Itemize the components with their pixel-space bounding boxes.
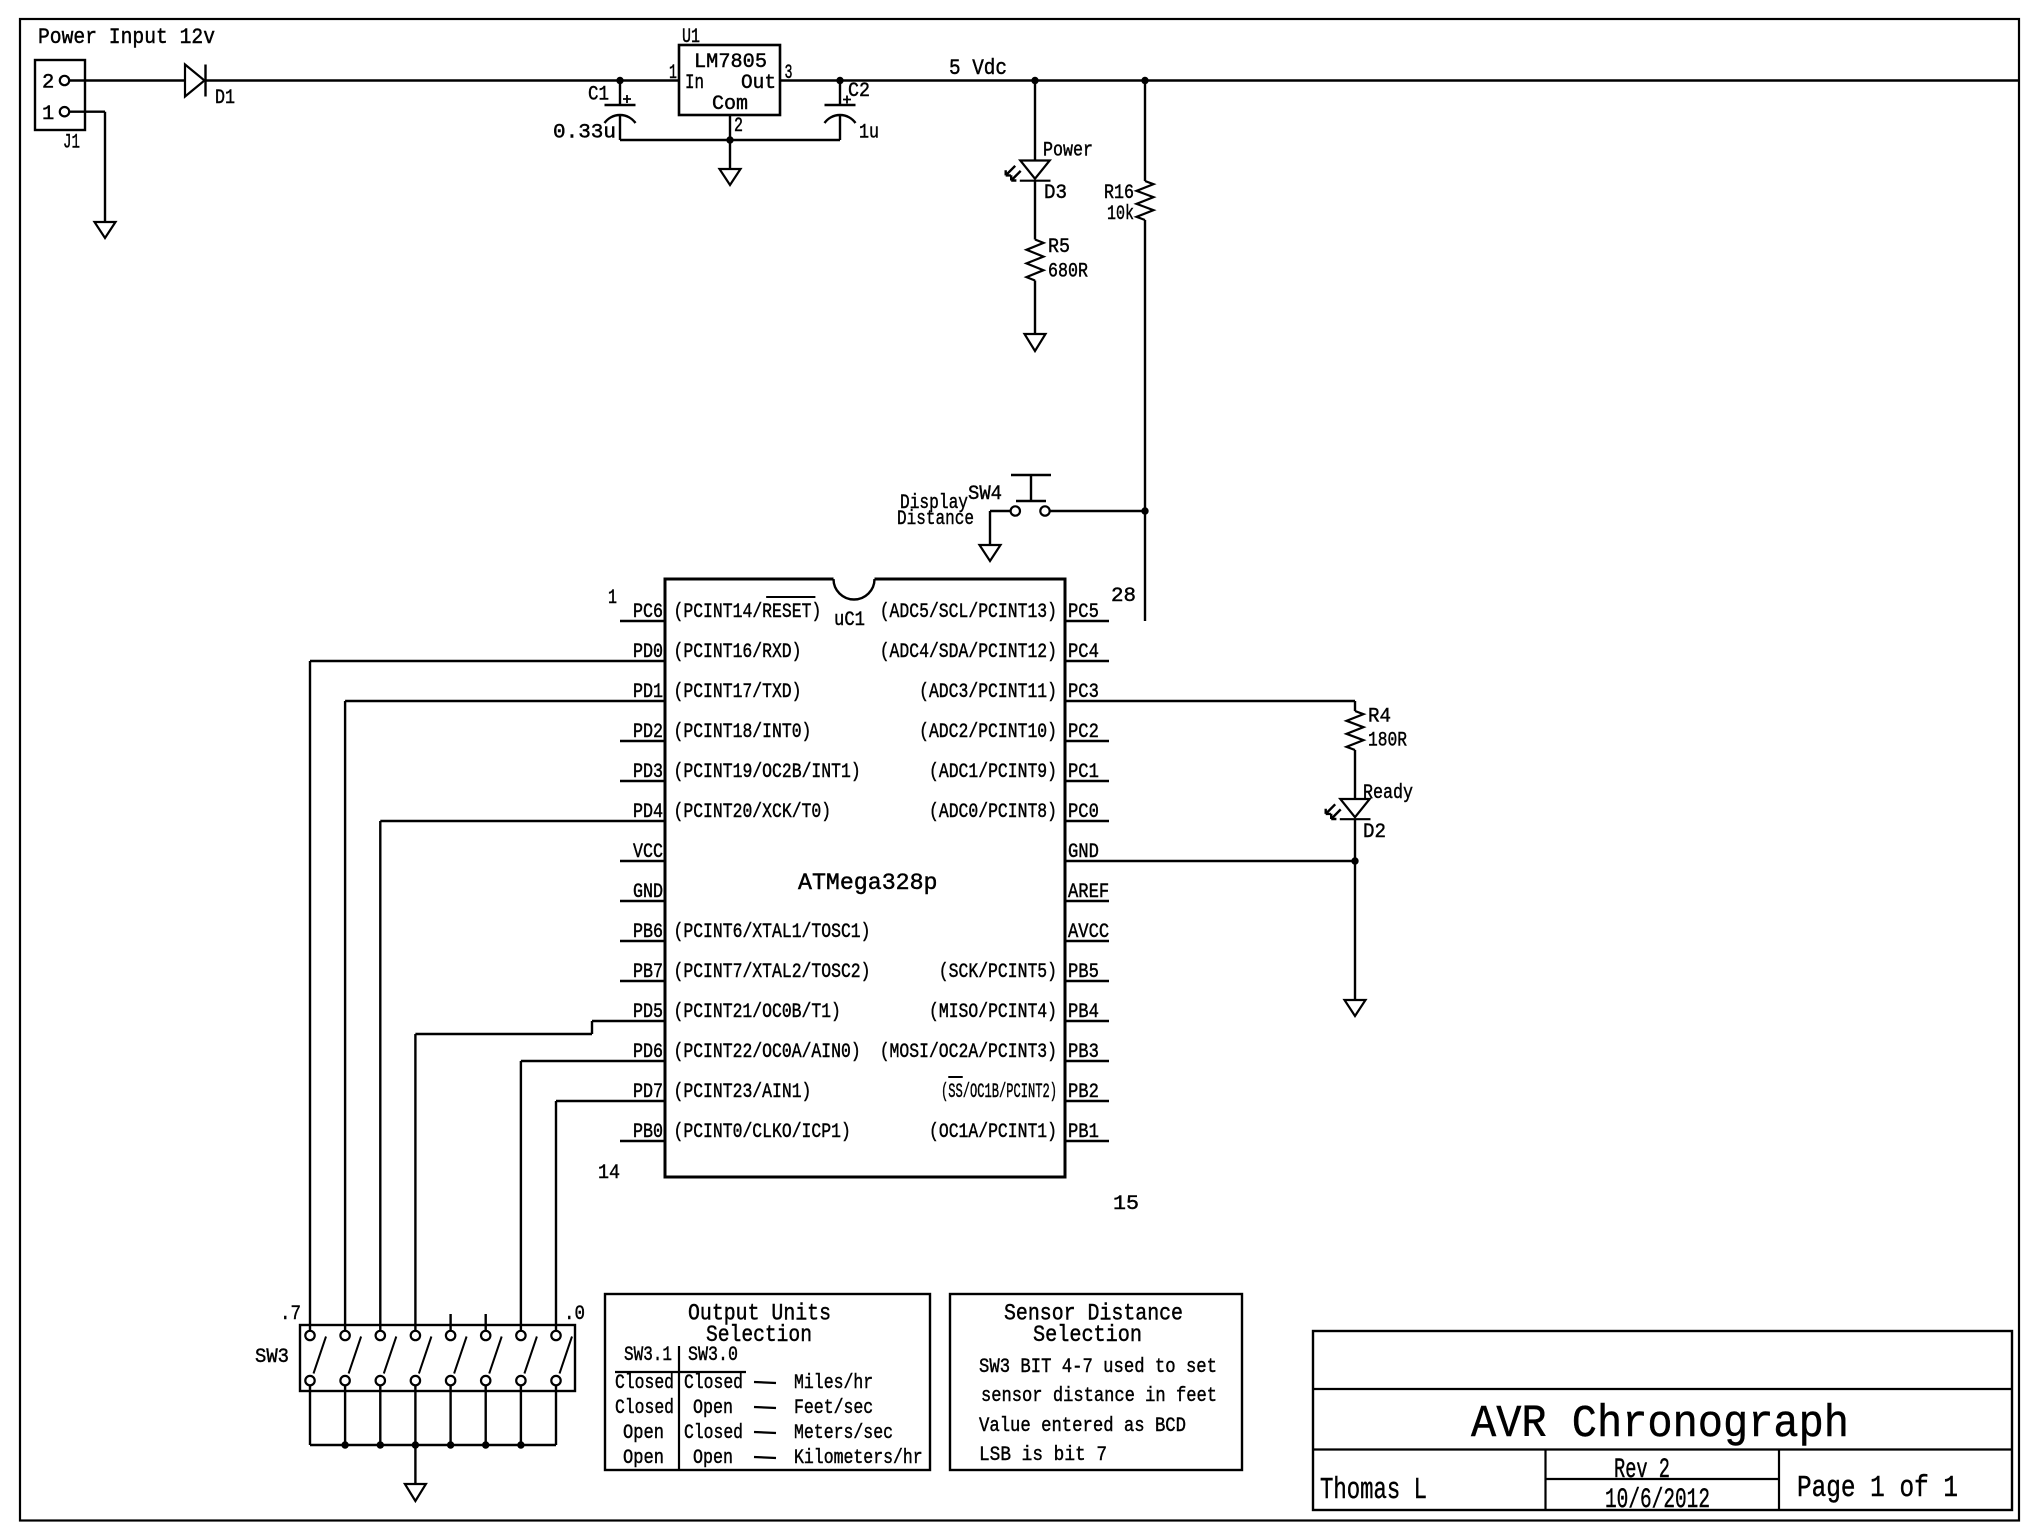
switch SW4 pushbutton [1011, 475, 1051, 516]
switch SW3 position 5 [376, 1331, 397, 1386]
switch SW3 position 0 [551, 1331, 572, 1386]
wire SW3 bottom 4 [414, 1385, 416, 1445]
svg-text:PB4: PB4 [1068, 1001, 1099, 1024]
svg-text:PD6: PD6 [633, 1041, 663, 1064]
svg-text:15: 15 [1113, 1193, 1139, 1216]
pin PC2 stub [1065, 740, 1109, 742]
pin PD7 stub [620, 1100, 665, 1102]
svg-text:PC0: PC0 [1068, 801, 1099, 824]
wire PD1 to SW3.6 [345, 701, 620, 1331]
table row Feet/sec [615, 1397, 873, 1420]
svg-text:PC1: PC1 [1068, 761, 1099, 784]
svg-text:Open: Open [623, 1422, 664, 1445]
svg-text:PB1: PB1 [1068, 1121, 1099, 1144]
wire R5 to ground [1034, 281, 1036, 335]
svg-text:PC6: PC6 [633, 601, 663, 624]
svg-text:Closed: Closed [684, 1372, 743, 1395]
wire D3 to R5 [1034, 180, 1036, 240]
svg-text:Closed: Closed [684, 1422, 743, 1445]
pin PB4 stub [1065, 1020, 1109, 1022]
svg-text:VCC: VCC [633, 841, 663, 864]
svg-text:(PCINT20/XCK/T0): (PCINT20/XCK/T0) [674, 801, 832, 824]
svg-text:(PCINT18/INT0): (PCINT18/INT0) [674, 721, 812, 744]
microcontroller uC1 ATMega328p body [665, 579, 1065, 1177]
wire SW3 bottom 2 [485, 1385, 487, 1445]
node C1 junction [616, 77, 623, 84]
connector J1 [35, 60, 85, 130]
svg-text:R16: R16 [1104, 182, 1134, 205]
svg-text:SW3: SW3 [255, 1346, 289, 1369]
wire SW3 bottom 0 [555, 1385, 557, 1445]
switch SW3 position 1 [516, 1331, 537, 1386]
wire SW3 bottom 1 [520, 1385, 522, 1445]
wire SW3 bottom 6 [344, 1385, 346, 1445]
svg-text:Kilometers/hr: Kilometers/hr [794, 1447, 923, 1470]
wire PD4 to SW3.5 [380, 821, 620, 1331]
svg-text:(MOSI/OC2A/PCINT3): (MOSI/OC2A/PCINT3) [880, 1041, 1057, 1064]
svg-text:(PCINT6/XTAL1/TOSC1): (PCINT6/XTAL1/TOSC1) [674, 921, 871, 944]
pin PC6 stub [620, 620, 665, 622]
svg-text:PD7: PD7 [633, 1081, 663, 1104]
node GND junction [1351, 857, 1358, 864]
svg-text:10k: 10k [1107, 203, 1134, 226]
pin AVCC stub [1065, 940, 1109, 942]
svg-text:1: 1 [608, 587, 617, 610]
ground J1 [95, 222, 116, 238]
svg-text:(SS/OC1B/PCINT2): (SS/OC1B/PCINT2) [941, 1081, 1057, 1104]
svg-text:Distance: Distance [897, 508, 974, 531]
svg-text:R5: R5 [1048, 236, 1070, 259]
pin PD3 stub [620, 780, 665, 782]
pin PD5 stub [620, 1020, 665, 1022]
svg-text:PB2: PB2 [1068, 1081, 1099, 1104]
wire J1 pin2 to D1 [69, 79, 185, 81]
svg-text:AVCC: AVCC [1068, 921, 1109, 944]
wire SW4 to net [1050, 510, 1145, 512]
table Output Units Selection [605, 1294, 930, 1470]
pin PD2 stub [620, 740, 665, 742]
svg-text:(PCINT7/XTAL2/TOSC2): (PCINT7/XTAL2/TOSC2) [674, 961, 871, 984]
switch SW3 body [300, 1325, 575, 1391]
svg-text:Out: Out [741, 72, 776, 95]
table header underline [615, 1371, 746, 1373]
plus C1 [623, 95, 631, 103]
wire to LED D3 [1034, 81, 1036, 161]
node SW3 bus junction [517, 1441, 524, 1448]
wire GND pin to D2 net [1109, 860, 1355, 862]
svg-text:PB6: PB6 [633, 921, 663, 944]
svg-text:PC3: PC3 [1068, 681, 1099, 704]
pin PB3 stub [1065, 1060, 1109, 1062]
svg-text:(OC1A/PCINT1): (OC1A/PCINT1) [929, 1121, 1057, 1144]
overline SS [948, 1076, 963, 1078]
svg-text:(PCINT19/OC2B/INT1): (PCINT19/OC2B/INT1) [674, 761, 861, 784]
pin PC4 stub [1065, 660, 1109, 662]
svg-text:PD5: PD5 [633, 1001, 663, 1024]
svg-text:J1: J1 [63, 132, 80, 155]
svg-text:(ADC2/PCINT10): (ADC2/PCINT10) [919, 721, 1057, 744]
svg-text:0.33u: 0.33u [553, 122, 616, 145]
switch SW3 position 4 [411, 1331, 432, 1386]
node SW3 bus junction [447, 1441, 454, 1448]
overline RESET [766, 596, 815, 598]
LED D3 [1020, 161, 1049, 179]
svg-text:14: 14 [598, 1162, 620, 1185]
wire PD6 to SW3.1 [521, 1061, 620, 1331]
svg-text:28: 28 [1111, 585, 1136, 608]
node D3 branch junction [1031, 77, 1038, 84]
capacitor C2 [825, 81, 856, 141]
svg-text:.0: .0 [564, 1303, 585, 1326]
wire D1 to U1 In [206, 79, 680, 81]
wire SW3 bottom 7 [309, 1385, 311, 1445]
switch SW3 position 7 [305, 1331, 326, 1386]
svg-text:Miles/hr: Miles/hr [794, 1372, 873, 1395]
pin PB6 stub [620, 940, 665, 942]
svg-text:.7: .7 [280, 1303, 301, 1326]
svg-text:1: 1 [669, 62, 677, 85]
pin PB7 stub [620, 980, 665, 982]
svg-text:LSB is bit 7: LSB is bit 7 [979, 1444, 1107, 1467]
svg-text:SW3 BIT 4-7 used to set: SW3 BIT 4-7 used to set [979, 1356, 1217, 1379]
ground D2 [1345, 1000, 1366, 1016]
svg-text:Ready: Ready [1363, 782, 1413, 805]
pin PB5 stub [1065, 980, 1109, 982]
pin PD6 stub [620, 1060, 665, 1062]
resistor R16 [1137, 181, 1154, 220]
svg-text:Open: Open [693, 1397, 733, 1420]
svg-text:1: 1 [42, 103, 54, 126]
wire bus to ground [414, 1445, 416, 1484]
pin PB0 stub [620, 1140, 665, 1142]
pin GND stub [620, 900, 665, 902]
wire to R16 [1144, 81, 1146, 182]
svg-text:Rev 2: Rev 2 [1614, 1455, 1670, 1486]
svg-text:Power Input 12v: Power Input 12v [38, 25, 215, 50]
wire R4 to D2 [1354, 750, 1356, 799]
pin PC5 stub [1065, 620, 1109, 622]
svg-text:D3: D3 [1044, 182, 1067, 205]
regulator U1 LM7805 [679, 45, 780, 116]
svg-text:Closed: Closed [615, 1397, 674, 1420]
svg-text:uC1: uC1 [834, 609, 865, 632]
svg-text:sensor distance in feet: sensor distance in feet [981, 1385, 1217, 1408]
node SW3 bus junction [412, 1441, 419, 1448]
wire SW3 bottom 5 [379, 1385, 381, 1445]
pin PD4 stub [620, 820, 665, 822]
node C2 junction [836, 77, 843, 84]
svg-text:(PCINT23/AIN1): (PCINT23/AIN1) [674, 1081, 812, 1104]
svg-text:(SCK/PCINT5): (SCK/PCINT5) [939, 961, 1057, 984]
svg-text:GND: GND [633, 881, 663, 904]
svg-text:Com: Com [712, 93, 748, 116]
svg-text:PD1: PD1 [633, 681, 663, 704]
stub SW3 position 2 [485, 1314, 487, 1331]
pin PB1 stub [1065, 1140, 1109, 1142]
note Sensor Distance Selection box [950, 1294, 1242, 1470]
diode D1 [185, 65, 206, 97]
pin PC3 stub [1065, 700, 1109, 702]
switch SW3 position 3 [446, 1331, 467, 1386]
wire U1 Out to right border [780, 79, 2019, 81]
table row Meters/sec [623, 1422, 893, 1445]
svg-text:(ADC5/SCL/PCINT13): (ADC5/SCL/PCINT13) [880, 601, 1057, 624]
svg-text:(PCINT21/OC0B/T1): (PCINT21/OC0B/T1) [674, 1001, 841, 1024]
pin VCC stub [620, 860, 665, 862]
node SW3 bus junction [377, 1441, 384, 1448]
svg-text:D1: D1 [215, 87, 235, 110]
pin GND stub [1065, 860, 1109, 862]
svg-text:5 Vdc: 5 Vdc [949, 56, 1007, 81]
pin PB2 stub [1065, 1100, 1109, 1102]
stub SW3 position 3 [449, 1314, 451, 1331]
svg-text:(PCINT0/CLKO/ICP1): (PCINT0/CLKO/ICP1) [674, 1121, 851, 1144]
pin AREF stub [1065, 900, 1109, 902]
wire PD7 to SW3.0 [556, 1101, 620, 1331]
node R16 branch junction [1141, 77, 1148, 84]
wire PC3 to R4 [1109, 701, 1355, 711]
pin PC0 stub [1065, 820, 1109, 822]
svg-text:(ADC4/SDA/PCINT12): (ADC4/SDA/PCINT12) [880, 641, 1057, 664]
svg-text:Thomas L: Thomas L [1320, 1473, 1427, 1508]
svg-text:SW4: SW4 [968, 483, 1002, 506]
svg-text:1u: 1u [859, 122, 879, 145]
svg-text:180R: 180R [1368, 730, 1407, 753]
node SW3 bus junction [482, 1441, 489, 1448]
capacitor C1 [605, 81, 636, 141]
node U1 com junction [726, 136, 733, 143]
title block frame [1313, 1331, 2012, 1510]
svg-text:PB0: PB0 [633, 1121, 663, 1144]
svg-text:2: 2 [734, 115, 743, 138]
pin PC1 stub [1065, 780, 1109, 782]
svg-text:R4: R4 [1368, 706, 1391, 729]
ground SW4 [980, 545, 1001, 561]
wire C1 to C2 bottom [620, 139, 840, 141]
svg-text:PB5: PB5 [1068, 961, 1099, 984]
svg-text:PC2: PC2 [1068, 721, 1099, 744]
table row Kilometers/hr [623, 1447, 923, 1470]
svg-text:PB7: PB7 [633, 961, 663, 984]
svg-text:Power: Power [1043, 140, 1093, 163]
svg-text:AREF: AREF [1068, 881, 1109, 904]
svg-text:(ADC3/PCINT11): (ADC3/PCINT11) [919, 681, 1057, 704]
wire SW4 to ground [990, 511, 1011, 545]
svg-text:Open: Open [623, 1447, 664, 1470]
svg-text:PC5: PC5 [1068, 601, 1099, 624]
svg-text:PB3: PB3 [1068, 1041, 1099, 1064]
svg-text:Closed: Closed [615, 1372, 674, 1395]
svg-text:D2: D2 [1363, 821, 1386, 844]
ground R5 [1025, 334, 1046, 351]
svg-text:PC4: PC4 [1068, 641, 1099, 664]
LED D2 [1340, 799, 1369, 817]
switch SW3 position 2 [481, 1331, 502, 1386]
svg-text:(MISO/PCINT4): (MISO/PCINT4) [929, 1001, 1057, 1024]
node SW4 junction [1141, 507, 1148, 514]
svg-text:PD3: PD3 [633, 761, 663, 784]
svg-text:LM7805: LM7805 [694, 51, 767, 74]
svg-text:10/6/2012: 10/6/2012 [1605, 1485, 1710, 1516]
pin PD1 stub [620, 700, 665, 702]
wire D2 to ground [1354, 819, 1356, 1001]
svg-text:SW3.1: SW3.1 [624, 1344, 672, 1367]
wire SW3 ground bus [310, 1444, 556, 1446]
table row Miles/hr [615, 1372, 873, 1395]
wire PD5 to SW3.4 [415, 1021, 620, 1331]
table divider vertical [678, 1346, 680, 1470]
svg-text:Selection: Selection [1033, 1322, 1142, 1348]
svg-text:C1: C1 [588, 84, 609, 107]
svg-text:Open: Open [693, 1447, 733, 1470]
ground SW3 [405, 1484, 426, 1501]
svg-text:(PCINT22/OC0A/AIN0): (PCINT22/OC0A/AIN0) [674, 1041, 861, 1064]
svg-text:In: In [685, 72, 704, 95]
svg-text:(PCINT14/RESET): (PCINT14/RESET) [674, 601, 822, 624]
wire PD0 to SW3.7 [310, 661, 620, 1331]
resistor R4 [1347, 711, 1364, 750]
resistor R5 [1027, 240, 1044, 281]
wire R16 to PC5 [1144, 220, 1146, 621]
ground U1 [720, 140, 741, 185]
svg-text:Feet/sec: Feet/sec [794, 1397, 873, 1420]
svg-text:SW3.0: SW3.0 [688, 1344, 738, 1367]
switch SW3 position 6 [340, 1331, 361, 1386]
plus C2 [843, 96, 851, 104]
svg-text:Value entered as BCD: Value entered as BCD [979, 1415, 1186, 1438]
svg-text:(PCINT16/RXD): (PCINT16/RXD) [674, 641, 802, 664]
svg-text:680R: 680R [1048, 261, 1088, 284]
node SW3 bus junction [341, 1441, 348, 1448]
svg-text:AVR Chronograph: AVR Chronograph [1471, 1398, 1849, 1450]
wire J1 pin1 to ground [69, 112, 105, 222]
svg-text:Meters/sec: Meters/sec [794, 1422, 893, 1445]
svg-text:U1: U1 [682, 26, 700, 49]
svg-text:ATMega328p: ATMega328p [798, 870, 938, 896]
svg-text:PD2: PD2 [633, 721, 663, 744]
wire SW3 bottom 3 [449, 1385, 451, 1445]
svg-text:PD4: PD4 [633, 801, 663, 824]
svg-text:(ADC1/PCINT9): (ADC1/PCINT9) [929, 761, 1057, 784]
svg-text:GND: GND [1068, 841, 1099, 864]
svg-text:(PCINT17/TXD): (PCINT17/TXD) [674, 681, 802, 704]
svg-text:(ADC0/PCINT8): (ADC0/PCINT8) [929, 801, 1057, 824]
svg-text:Page 1 of 1: Page 1 of 1 [1797, 1471, 1958, 1506]
svg-text:2: 2 [42, 72, 54, 95]
svg-text:PD0: PD0 [633, 641, 663, 664]
svg-text:C2: C2 [848, 80, 870, 103]
pin PD0 stub [620, 660, 665, 662]
pin 2 stem U1 [729, 115, 731, 140]
